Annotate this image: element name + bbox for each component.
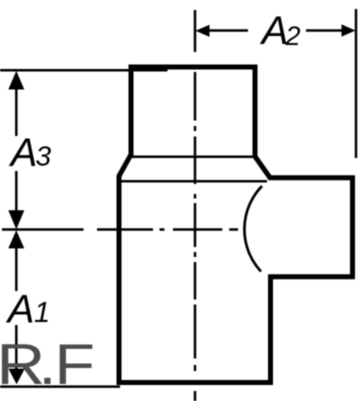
svg-text:3: 3 — [36, 141, 52, 172]
svg-text:F: F — [54, 333, 95, 397]
svg-text:A: A — [9, 131, 38, 175]
svg-text:R: R — [0, 333, 45, 397]
svg-text:1: 1 — [34, 297, 50, 329]
svg-text:A: A — [260, 9, 289, 53]
svg-text:2: 2 — [285, 21, 301, 51]
svg-text:A: A — [6, 288, 35, 332]
